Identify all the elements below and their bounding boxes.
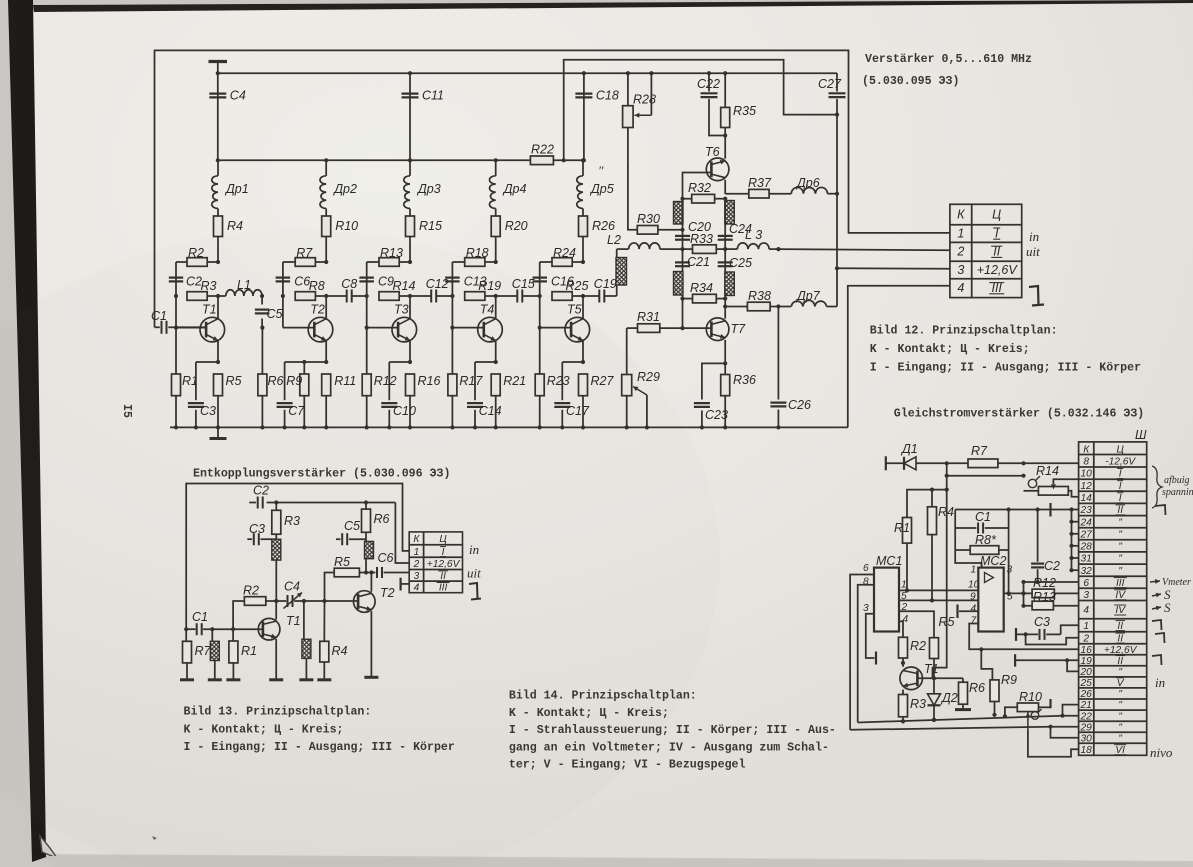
wiper R10 to row18 xyxy=(1025,713,1078,757)
svg-text:14: 14 xyxy=(1081,493,1093,504)
svg-text:1: 1 xyxy=(1083,621,1089,632)
svg-text:C10: C10 xyxy=(393,404,416,418)
wire input top line xyxy=(186,484,409,630)
resistor R5 xyxy=(325,555,376,601)
svg-text:": " xyxy=(1118,529,1122,540)
svg-text:R14: R14 xyxy=(1036,464,1059,478)
annotation Vmeter xyxy=(1150,577,1191,588)
svg-text:1: 1 xyxy=(971,565,977,576)
wire row19 terminator xyxy=(1015,654,1079,671)
svg-text:R5: R5 xyxy=(226,374,242,388)
feedthrough bead xyxy=(674,272,684,296)
resistor R12 xyxy=(1032,576,1079,598)
svg-text:R10: R10 xyxy=(335,219,358,233)
resistor R30 xyxy=(628,160,685,234)
svg-text:in: in xyxy=(1029,229,1039,244)
supply rail y160 xyxy=(218,159,584,161)
capacitor C20 xyxy=(675,199,711,249)
svg-text:-12,6V: -12,6V xyxy=(1105,456,1136,467)
capacitor C26 xyxy=(770,307,811,430)
svg-text:L 3: L 3 xyxy=(745,228,762,242)
svg-text:R35: R35 xyxy=(733,104,756,118)
svg-text:21: 21 xyxy=(1080,700,1092,711)
svg-text:3: 3 xyxy=(1007,565,1013,576)
resistor R7 xyxy=(180,629,212,680)
resistor R1 xyxy=(172,326,198,430)
capacitor C13 xyxy=(445,262,487,296)
svg-text:C26: C26 xyxy=(788,398,811,412)
svg-text:3: 3 xyxy=(1083,590,1089,601)
svg-text:L1: L1 xyxy=(237,278,251,292)
svg-text:Verstärker 0,5...610 MHz: Verstärker 0,5...610 MHz xyxy=(865,53,1032,66)
svg-text:Др5: Др5 xyxy=(589,182,614,196)
svg-text:R26: R26 xyxy=(592,219,615,233)
svg-text:C2: C2 xyxy=(1044,559,1060,573)
wire R8 to output xyxy=(1007,591,1011,595)
wire MC1 pin4 to R2 xyxy=(899,621,903,637)
feedthrough bead L2 xyxy=(616,258,627,286)
opamp MC2 xyxy=(978,554,1006,632)
table cell 4 xyxy=(957,281,1004,295)
wire loop rows21-22 xyxy=(858,705,1079,724)
svg-text:Др1: Др1 xyxy=(224,182,249,196)
page number xyxy=(120,404,133,418)
caption Bild 12 xyxy=(870,325,1141,375)
table cell К xyxy=(413,534,447,545)
wire MC1 pin2 to R5 xyxy=(899,611,934,638)
svg-text:K - Kontakt; Ц - Kreis;: K - Kontakt; Ц - Kreis; xyxy=(870,343,1030,356)
resistor R35 xyxy=(721,71,756,156)
svg-text:R18: R18 xyxy=(466,246,489,260)
resistor R12 xyxy=(362,326,396,430)
resistor R2b xyxy=(899,637,927,667)
table cell К xyxy=(957,207,1001,221)
svg-text:16: 16 xyxy=(1081,645,1093,656)
svg-text:К: К xyxy=(957,207,965,221)
capacitor C3 xyxy=(247,522,276,545)
svg-text:R33: R33 xyxy=(690,232,713,246)
trimmer R14 xyxy=(1024,464,1079,497)
svg-text:R20: R20 xyxy=(505,219,528,233)
resistor R4 xyxy=(214,209,244,263)
dark gutter band left xyxy=(8,0,46,862)
feedthrough bead xyxy=(299,601,313,680)
svg-text:R10: R10 xyxy=(1019,690,1042,704)
resistor R7 xyxy=(283,246,328,266)
svg-text:T1: T1 xyxy=(286,614,301,628)
inductor Др1 xyxy=(212,160,249,208)
svg-text:C5: C5 xyxy=(267,307,283,321)
caption Bild 14 xyxy=(509,690,836,772)
svg-text:C3: C3 xyxy=(249,522,265,536)
svg-text:+12,6V: +12,6V xyxy=(977,263,1019,277)
svg-text:R23: R23 xyxy=(547,374,570,388)
svg-text:L2: L2 xyxy=(607,233,621,247)
inductor Др3 xyxy=(404,158,441,208)
wire contact 4 stub xyxy=(401,578,410,591)
svg-text:Др6: Др6 xyxy=(795,176,820,190)
svg-text:R11: R11 xyxy=(334,374,356,388)
resistor R24 xyxy=(540,246,585,266)
svg-text:R38: R38 xyxy=(748,289,771,303)
feedthrough bead xyxy=(725,201,735,225)
svg-text:R13: R13 xyxy=(1033,590,1056,604)
svg-text:Др7: Др7 xyxy=(795,289,821,303)
annotation S row3 xyxy=(1152,587,1171,602)
svg-text:I5: I5 xyxy=(120,404,133,418)
capacitor C2b xyxy=(1031,510,1060,585)
svg-text:T2: T2 xyxy=(380,586,395,600)
svg-text:": " xyxy=(1118,711,1122,722)
svg-text:R29: R29 xyxy=(637,370,660,384)
annotation hook row19 xyxy=(1152,655,1162,665)
capacitor C1b xyxy=(955,510,1008,534)
svg-text:R7: R7 xyxy=(195,644,212,658)
resistor R3 xyxy=(272,500,300,534)
resistor R6 xyxy=(258,326,284,430)
svg-text:7: 7 xyxy=(971,616,977,627)
svg-text:C19: C19 xyxy=(594,277,617,291)
svg-text:R17: R17 xyxy=(459,374,483,388)
resistor R8 xyxy=(281,279,329,300)
transistor T1 xyxy=(258,601,300,680)
svg-text:R3: R3 xyxy=(910,697,926,711)
capacitor C18 xyxy=(575,71,618,162)
capacitor C2 xyxy=(169,262,202,296)
svg-text:24: 24 xyxy=(1080,517,1093,528)
svg-text:R8*: R8* xyxy=(975,533,997,547)
svg-text:I - Eingang; II - Ausgang; III: I - Eingang; II - Ausgang; III - Körper xyxy=(184,741,455,754)
wire MC2 pin4 terminator xyxy=(958,605,979,619)
resistor R19 xyxy=(450,279,501,300)
svg-text:23: 23 xyxy=(1080,505,1093,516)
svg-text:+12,6V: +12,6V xyxy=(1104,645,1138,656)
wire supply line xyxy=(267,503,410,564)
wire input line from C1 up and across top to contact 1 xyxy=(155,50,950,327)
resistor R34 xyxy=(680,281,727,303)
wire emitter xyxy=(389,360,412,364)
svg-text:T1: T1 xyxy=(202,303,217,317)
svg-text:6: 6 xyxy=(1083,578,1089,589)
wire xyxy=(682,299,684,329)
capacitor C27 xyxy=(818,73,846,117)
resistor R32 xyxy=(680,181,727,203)
table cell 1 xyxy=(957,226,1000,240)
connector table K-Ts xyxy=(950,204,1022,297)
resistor R16 xyxy=(406,374,441,430)
wire base T1 xyxy=(176,326,206,328)
svg-text:": " xyxy=(1118,722,1122,733)
svg-text:C7: C7 xyxy=(288,404,305,418)
svg-text:R6: R6 xyxy=(268,374,284,388)
svg-text:C3: C3 xyxy=(1034,615,1050,629)
inductor Др7 xyxy=(791,194,837,307)
inductor L3 xyxy=(725,228,778,249)
svg-text:R6: R6 xyxy=(969,681,985,695)
wire loop rows29-30 xyxy=(850,725,1079,738)
svg-text:25: 25 xyxy=(1080,678,1093,689)
resistor R3 xyxy=(174,279,220,300)
wire base T2 xyxy=(302,599,359,603)
svg-text:C1: C1 xyxy=(192,610,208,624)
svg-text:R32: R32 xyxy=(688,181,711,195)
svg-text:T2: T2 xyxy=(310,303,325,317)
svg-text:R3: R3 xyxy=(201,279,217,293)
svg-text:C5: C5 xyxy=(344,519,360,533)
svg-text:3: 3 xyxy=(957,263,964,277)
table cell 2 xyxy=(956,245,1002,259)
resistor R15 xyxy=(406,209,442,263)
svg-text:К: К xyxy=(413,534,420,545)
svg-text:C2: C2 xyxy=(253,484,269,498)
wire row10 xyxy=(945,474,1026,478)
svg-text:19: 19 xyxy=(1081,656,1093,667)
svg-text:R5: R5 xyxy=(334,555,350,569)
svg-text:2: 2 xyxy=(956,245,964,259)
svg-text:R2: R2 xyxy=(243,584,259,598)
svg-text:Ц: Ц xyxy=(439,534,447,545)
svg-text:R28: R28 xyxy=(633,93,656,107)
svg-text:Ш: Ш xyxy=(1135,428,1147,442)
svg-text:R34: R34 xyxy=(690,281,713,295)
svg-text:Др4: Др4 xyxy=(502,182,527,196)
diode Д2 xyxy=(928,678,958,722)
resistor R14 xyxy=(365,279,416,300)
svg-text:T5: T5 xyxy=(567,303,582,317)
capacitor C21 xyxy=(675,249,710,298)
ground xyxy=(209,62,228,74)
svg-text:C18: C18 xyxy=(596,89,619,103)
svg-text:R1: R1 xyxy=(894,521,910,535)
transistor T5 xyxy=(565,296,590,362)
resistor R23 xyxy=(535,326,569,430)
svg-text:T3: T3 xyxy=(394,303,409,317)
svg-text:R22: R22 xyxy=(531,143,554,157)
svg-text:gang an ein Voltmeter; IV - Au: gang an ein Voltmeter; IV - Ausgang zum … xyxy=(509,742,829,755)
wire MC1 pin3 xyxy=(866,614,876,665)
svg-text:Д1: Д1 xyxy=(900,442,918,456)
svg-text:К: К xyxy=(1083,444,1090,455)
svg-text:C11: C11 xyxy=(422,89,444,103)
capacitor C23 xyxy=(694,361,728,429)
annotation hook row23 xyxy=(1155,505,1166,515)
svg-text:27: 27 xyxy=(1080,529,1093,540)
svg-text:26: 26 xyxy=(1080,689,1093,700)
opamp MC1 xyxy=(874,554,902,632)
resistor R36 xyxy=(721,363,756,429)
svg-text:″: ″ xyxy=(598,163,604,178)
svg-text:30: 30 xyxy=(1081,733,1093,744)
resistor R6 xyxy=(362,500,390,532)
connector table Sh xyxy=(1079,442,1147,755)
annotation hook xyxy=(469,583,481,600)
svg-text:MC2: MC2 xyxy=(980,554,1006,568)
wire body to contact 4 xyxy=(848,286,950,428)
title Verstaerker xyxy=(865,53,1032,66)
svg-text:": " xyxy=(1118,733,1122,744)
wire MC2 pin1 xyxy=(955,550,981,568)
resistor R8b xyxy=(955,528,1008,554)
wire base xyxy=(367,296,398,328)
inductor Др6 xyxy=(791,115,839,196)
svg-text:R14: R14 xyxy=(393,279,416,293)
svg-text:18: 18 xyxy=(1081,745,1093,756)
svg-text:R9: R9 xyxy=(1001,673,1017,687)
wire MC1 pin6 xyxy=(850,575,874,730)
svg-text:C12: C12 xyxy=(426,277,449,291)
table cells Sh xyxy=(1080,456,1138,756)
svg-text:C17: C17 xyxy=(566,404,590,418)
svg-text:(5.030.095 ЭЗ): (5.030.095 ЭЗ) xyxy=(862,75,959,88)
svg-text:Др3: Др3 xyxy=(416,182,441,196)
svg-text:C8: C8 xyxy=(341,277,357,291)
capacitor C2 xyxy=(249,484,269,509)
svg-text:R7: R7 xyxy=(971,444,988,458)
resistor R1b xyxy=(894,518,912,593)
svg-text:+12,6V: +12,6V xyxy=(427,559,461,570)
wire R1 feed xyxy=(907,488,949,518)
trimmer R10 xyxy=(1003,690,1051,719)
pin labels MC1 xyxy=(863,563,909,625)
svg-text:T1: T1 xyxy=(924,662,939,676)
inductor Др5 xyxy=(577,158,614,208)
resistor R20 xyxy=(491,209,527,263)
feedthrough bead xyxy=(674,202,684,225)
wire base xyxy=(452,296,483,328)
svg-text:T4: T4 xyxy=(480,303,495,317)
svg-text:Д2: Д2 xyxy=(940,691,958,705)
wire row1 xyxy=(1061,625,1079,634)
capacitor C5 xyxy=(255,294,283,328)
resistor R17 xyxy=(448,326,483,430)
svg-text:C25: C25 xyxy=(729,256,752,270)
capacitor C10 xyxy=(381,362,416,430)
svg-text:R9: R9 xyxy=(286,374,302,388)
svg-text:6: 6 xyxy=(863,563,869,574)
svg-text:20: 20 xyxy=(1080,667,1093,678)
svg-text:8: 8 xyxy=(863,577,869,588)
svg-text:4: 4 xyxy=(414,583,420,594)
svg-text:": " xyxy=(1118,689,1122,700)
svg-text:8: 8 xyxy=(1083,456,1089,467)
wire base xyxy=(283,296,314,328)
annotation uit xyxy=(467,566,481,581)
wire MC1 pin1 to MC2 pin10 xyxy=(899,589,978,591)
diode Д1 xyxy=(886,442,918,470)
capacitor C1 xyxy=(184,610,264,635)
svg-text:R3: R3 xyxy=(284,514,300,528)
annotation hook xyxy=(1029,286,1044,306)
svg-text:R12: R12 xyxy=(1033,576,1056,590)
svg-text:Bild 12. Prinzipschaltplan:: Bild 12. Prinzipschaltplan: xyxy=(870,325,1058,338)
svg-text:3: 3 xyxy=(414,571,420,582)
svg-text:10: 10 xyxy=(968,580,980,591)
svg-text:R12: R12 xyxy=(374,374,397,388)
annotation hook row2 xyxy=(1155,633,1165,643)
svg-text:MC1: MC1 xyxy=(876,554,902,568)
svg-text:10: 10 xyxy=(1081,469,1093,480)
transistor T1b xyxy=(900,662,939,690)
capacitor C24 xyxy=(718,199,752,249)
wire output to contact 2 xyxy=(776,247,950,251)
capacitor C16 xyxy=(533,262,574,296)
resistor R7b xyxy=(916,444,1079,468)
svg-text:R16: R16 xyxy=(418,374,441,388)
transistor T1 xyxy=(200,296,225,362)
svg-text:28: 28 xyxy=(1080,541,1093,552)
resistor R13 xyxy=(1021,582,1078,610)
svg-text:nivo: nivo xyxy=(1150,745,1173,760)
resistor R31 xyxy=(627,310,685,332)
svg-text:R24: R24 xyxy=(553,246,576,260)
svg-text:C15: C15 xyxy=(512,277,535,291)
svg-text:": " xyxy=(1118,541,1122,552)
capacitor C17 xyxy=(554,362,590,430)
svg-text:R8: R8 xyxy=(309,279,325,293)
resistor R27 xyxy=(579,374,615,430)
svg-text:1: 1 xyxy=(414,547,420,558)
svg-text:R36: R36 xyxy=(733,373,756,387)
annotation uit xyxy=(1026,244,1040,259)
svg-text:R13: R13 xyxy=(380,246,403,260)
svg-text:": " xyxy=(1118,517,1122,528)
transistor T6 xyxy=(705,145,729,194)
svg-text:12: 12 xyxy=(1081,481,1093,492)
annotation nivo xyxy=(1150,745,1173,760)
svg-text:Bild 14. Prinzipschaltplan:: Bild 14. Prinzipschaltplan: xyxy=(509,690,697,703)
table cell 2 xyxy=(413,559,461,570)
svg-text:Ц: Ц xyxy=(992,207,1001,221)
svg-text:S: S xyxy=(1164,600,1171,615)
svg-text:R2: R2 xyxy=(910,639,926,653)
capacitor C14 xyxy=(467,362,502,430)
resistor R6b xyxy=(955,678,985,709)
pin labels MC2 xyxy=(968,565,1013,627)
resistor R5b xyxy=(930,615,955,680)
svg-text:in: in xyxy=(1155,675,1165,690)
svg-text:22: 22 xyxy=(1080,711,1093,722)
svg-text:C4: C4 xyxy=(230,89,246,103)
resistor R10 xyxy=(322,209,358,263)
capacitor C25 xyxy=(718,249,752,299)
ground rail y73 xyxy=(218,72,837,74)
resistor R3b xyxy=(899,690,927,724)
wire R22 bypass to C27 node xyxy=(564,60,837,161)
svg-text:R21: R21 xyxy=(503,374,526,388)
table cell 1 xyxy=(414,547,447,558)
svg-text:T6: T6 xyxy=(705,145,720,159)
title Gleichstromverstaerker xyxy=(894,408,1144,421)
capacitor C1 xyxy=(151,309,176,334)
annotation brace rows10-14 xyxy=(1152,466,1193,508)
resistor R11 xyxy=(322,374,357,430)
svg-text:afbuig: afbuig xyxy=(1164,475,1190,486)
ground rail bottom xyxy=(170,426,848,428)
resistor R1 xyxy=(226,629,257,680)
svg-text:K - Kontakt; Ц - Kreis;: K - Kontakt; Ц - Kreis; xyxy=(184,724,344,737)
resistor R9b xyxy=(981,649,1017,717)
annotation hook row1 xyxy=(1152,620,1162,630)
title Entkopplungsverstaerker xyxy=(193,468,450,481)
resistor R5 xyxy=(214,374,242,430)
dark top strip xyxy=(33,0,1193,12)
capacitor C8 xyxy=(326,277,367,303)
svg-text:2: 2 xyxy=(1082,633,1089,644)
svg-text:": " xyxy=(1118,667,1122,678)
resistor R13 xyxy=(367,246,412,266)
feedthrough bead xyxy=(208,629,222,680)
capacitor C3b xyxy=(1016,615,1061,641)
